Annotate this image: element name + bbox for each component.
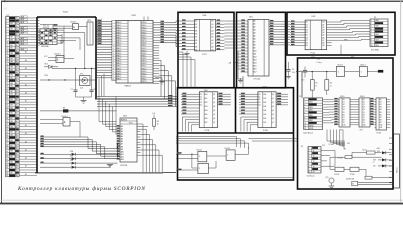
svg-text:21: 21	[6, 72, 8, 74]
svg-text:Q6: Q6	[272, 118, 274, 120]
gate DD16.3 label	[62, 116, 68, 118]
svg-text:7: 7	[308, 164, 309, 166]
svg-text:PA5.1: PA5.1	[117, 75, 122, 78]
label VCC	[44, 56, 48, 58]
resistor R5a	[330, 156, 382, 160]
svg-text:A16: A16	[253, 68, 256, 71]
gate DD15.2	[226, 147, 248, 160]
EPROM DD6	[117, 118, 141, 162]
ground bottom right	[329, 183, 334, 189]
svg-text:27: 27	[6, 88, 8, 90]
svg-text:K1: K1	[374, 17, 376, 19]
resistor pack RP1	[87, 20, 93, 45]
svg-text:9: 9	[371, 42, 372, 44]
connector X3 label	[301, 146, 303, 148]
svg-text:D9: D9	[306, 45, 308, 47]
ground under DD8	[155, 78, 165, 84]
svg-text:A8: A8	[253, 44, 255, 47]
bus wires to box D	[97, 95, 178, 107]
svg-text:PA5.1: PA5.1	[117, 54, 122, 57]
function box C outline	[287, 12, 395, 55]
svg-text:ZQ1: ZQ1	[80, 88, 83, 90]
svg-text:3Q644: 3Q644	[63, 12, 68, 14]
wires into grid IC rows	[37, 18, 40, 45]
svg-text:D02: D02	[205, 102, 208, 104]
svg-text:KB8: KB8	[10, 39, 13, 41]
wire K1 area down	[340, 45, 342, 54]
svg-text:8: 8	[308, 166, 309, 168]
wires inside box E left	[301, 72, 303, 98]
svg-text:PA3.3: PA3.3	[117, 70, 122, 73]
svg-text:KB4: KB4	[10, 83, 13, 85]
label VD1	[43, 25, 46, 27]
label VD3	[45, 75, 48, 77]
svg-text:Q1: Q1	[213, 98, 215, 100]
svg-text:KB8: KB8	[10, 121, 13, 123]
svg-text:VD5: VD5	[347, 143, 350, 145]
svg-text:1: 1	[6, 18, 7, 20]
svg-text:HB: HB	[344, 148, 346, 150]
gate DD15.2 label	[225, 148, 231, 150]
svg-text:Q4: Q4	[211, 34, 213, 36]
svg-text:20: 20	[6, 69, 8, 71]
svg-text:PA7.3: PA7.3	[117, 39, 122, 42]
svg-text:13: 13	[112, 53, 114, 55]
page bottom edge band	[0, 200, 403, 205]
svg-text:44: 44	[6, 134, 8, 136]
svg-text:R5: R5	[316, 83, 318, 85]
capacitor C4	[284, 62, 295, 79]
svg-text:38: 38	[6, 118, 8, 120]
svg-text:D0: D0	[258, 94, 260, 96]
svg-text:Тчк Mouse: Тчк Mouse	[307, 176, 315, 178]
IC DD14 label	[360, 96, 364, 98]
svg-text:18: 18	[112, 66, 114, 68]
svg-text:5: 5	[308, 158, 309, 160]
svg-text:MS8: MS8	[309, 120, 313, 122]
svg-text:D9: D9	[195, 50, 197, 52]
svg-text:A15: A15	[253, 65, 256, 68]
svg-text:KB0: KB0	[10, 45, 13, 47]
svg-text:A6: A6	[253, 38, 255, 41]
svg-text:PA3.3: PA3.3	[117, 49, 122, 52]
svg-text:PA0.0: PA0.0	[117, 42, 122, 45]
connector X2 caption	[303, 132, 313, 134]
diode VD5	[40, 156, 118, 161]
svg-text:3: 3	[6, 23, 7, 25]
svg-text:D7: D7	[195, 43, 197, 45]
matrix IC DD1 right pin stubs	[37, 30, 62, 43]
svg-text:48: 48	[6, 145, 8, 147]
svg-text:Порт Mouse: Порт Mouse	[303, 132, 313, 134]
svg-text:3: 3	[112, 27, 113, 29]
svg-text:KB1: KB1	[10, 48, 13, 50]
svg-text:39: 39	[6, 121, 8, 123]
svg-text:10: 10	[6, 42, 8, 44]
register DD4 label	[203, 15, 207, 17]
svg-text:B11: B11	[380, 127, 383, 129]
svg-text:D2: D2	[258, 99, 260, 101]
register DD9	[181, 92, 231, 128]
svg-text:41: 41	[6, 126, 8, 128]
svg-text:15: 15	[6, 56, 8, 58]
resistor R4	[352, 149, 382, 154]
title text	[17, 185, 145, 192]
svg-text:1: 1	[112, 22, 113, 24]
svg-text:45: 45	[6, 137, 8, 139]
svg-text:17: 17	[6, 61, 8, 63]
svg-text:D00: D00	[205, 94, 208, 96]
label P3 6.1 MHz	[317, 59, 322, 64]
svg-text:KT208: KT208	[334, 174, 339, 176]
svg-text:MS1: MS1	[309, 102, 313, 104]
svg-text:14: 14	[112, 55, 114, 57]
transistor VT1 label	[80, 73, 83, 75]
svg-text:KB7: KB7	[10, 118, 13, 120]
svg-text:12: 12	[6, 48, 8, 50]
wire bus box A to DD8	[96, 20, 112, 45]
svg-text:B10: B10	[380, 125, 383, 127]
svg-text:D0: D0	[343, 99, 345, 101]
sheet corner mark	[4, 7, 8, 11]
svg-text:4: 4	[371, 28, 372, 30]
svg-text:19: 19	[6, 67, 8, 69]
wire bus box A to DD8 lower pins	[96, 47, 112, 96]
EPROM DD5 label	[249, 17, 253, 19]
svg-text:DD7: DD7	[351, 57, 354, 59]
svg-text:KB2: KB2	[10, 105, 13, 107]
ground under oscillator	[76, 97, 92, 103]
connector K1 label	[374, 17, 376, 19]
svg-text:+2: +2	[373, 161, 375, 163]
svg-text:D3: D3	[343, 107, 345, 109]
gate DD16.2 label	[55, 54, 61, 56]
svg-text:PA4.0: PA4.0	[117, 31, 122, 34]
svg-text:6.1 мгц: 6.1 мгц	[317, 62, 322, 64]
wire vertical x64	[56, 26, 64, 57]
svg-text:T5: T5	[313, 161, 315, 163]
svg-text:VD4: VD4	[70, 151, 73, 153]
svg-text:KB7: KB7	[375, 39, 378, 41]
svg-text:Port KBD: Port KBD	[371, 48, 380, 51]
wire bundle right of DD6	[141, 124, 177, 172]
wire bundle down from mouse ICs	[327, 130, 345, 148]
svg-text:42: 42	[6, 129, 8, 131]
svg-text:D04: D04	[205, 110, 208, 112]
svg-text:B2: B2	[380, 104, 382, 106]
EPROM DD5	[241, 19, 281, 76]
svg-text:KB0: KB0	[375, 20, 378, 22]
svg-text:D8: D8	[343, 119, 345, 121]
svg-text:KB5: KB5	[10, 58, 13, 60]
svg-text:4: 4	[308, 156, 309, 158]
svg-text:Q2: Q2	[363, 104, 365, 106]
svg-text:16.0: 16.0	[292, 72, 295, 74]
MCU DD8 top stubs	[144, 17, 148, 21]
svg-text:56: 56	[6, 167, 8, 169]
label DD7	[351, 57, 354, 59]
label ZQ644 above box A	[63, 12, 68, 14]
svg-text:PA5.1: PA5.1	[117, 34, 122, 37]
svg-text:5: 5	[112, 32, 113, 34]
svg-text:D6: D6	[343, 114, 345, 116]
connector X2 mouse port	[304, 98, 323, 130]
svg-text:A12: A12	[253, 56, 256, 59]
register DD2 part label	[311, 52, 316, 54]
capacitor C8	[90, 69, 96, 98]
wire staircase DD2 to K1	[332, 21, 370, 41]
svg-text:P16: P16	[322, 145, 325, 147]
svg-text:1k: 1k	[316, 85, 318, 87]
svg-text:1: 1	[308, 148, 309, 150]
svg-text:A9: A9	[253, 47, 255, 50]
svg-text:A7: A7	[253, 41, 255, 44]
svg-text:6: 6	[308, 161, 309, 163]
svg-text:KB7: KB7	[10, 172, 13, 174]
resistor R2	[325, 72, 332, 95]
svg-text:DD10: DD10	[263, 86, 268, 88]
svg-text:D3: D3	[200, 102, 202, 104]
svg-text:B7: B7	[380, 117, 382, 119]
transistor VT3	[350, 167, 366, 176]
svg-text:Q0: Q0	[272, 94, 274, 96]
register DD4 part label	[202, 54, 207, 56]
svg-text:VD2: VD2	[45, 64, 48, 66]
svg-text:53: 53	[6, 159, 8, 161]
svg-text:10: 10	[371, 45, 373, 47]
svg-text:24: 24	[6, 80, 8, 82]
svg-text:11: 11	[6, 45, 8, 47]
svg-text:8: 8	[112, 40, 113, 42]
svg-text:Q0: Q0	[213, 94, 215, 96]
svg-text:4: 4	[112, 30, 113, 32]
svg-text:+12B: +12B	[376, 148, 380, 150]
svg-text:16: 16	[112, 61, 114, 63]
svg-text:7: 7	[112, 38, 113, 40]
diode VD8	[377, 151, 392, 154]
transistor VT2	[330, 167, 350, 176]
gate DD16.1 label	[71, 21, 77, 23]
label R1.2	[312, 56, 315, 58]
register DD10 label	[263, 86, 268, 88]
svg-text:PA0.0: PA0.0	[117, 62, 122, 65]
register DD10 part label	[263, 130, 268, 132]
svg-text:DD6: DD6	[123, 116, 127, 118]
svg-text:5: 5	[371, 31, 372, 33]
svg-text:X3: X3	[301, 146, 303, 148]
svg-text:Q2: Q2	[213, 102, 215, 104]
wire staircase DD8 lower right	[159, 61, 175, 107]
svg-text:37: 37	[6, 115, 8, 117]
svg-text:A5: A5	[253, 35, 255, 38]
svg-text:35: 35	[6, 110, 8, 112]
svg-text:D05: D05	[263, 114, 266, 116]
svg-text:PA1.1: PA1.1	[117, 65, 122, 68]
svg-text:R5 200: R5 200	[338, 157, 343, 159]
IC DD13 part label	[340, 129, 343, 131]
svg-text:KB8: KB8	[10, 94, 13, 96]
IC DD13	[334, 98, 356, 127]
svg-text:5: 5	[6, 29, 7, 31]
wire staircase into DD9 lower pins	[182, 126, 191, 131]
svg-text:27C256: 27C256	[254, 79, 261, 81]
svg-text:KB9: KB9	[10, 69, 13, 71]
svg-text:D06: D06	[263, 118, 266, 120]
svg-text:D01: D01	[263, 98, 266, 100]
svg-text:D5: D5	[195, 37, 197, 39]
svg-text:D1: D1	[343, 102, 345, 104]
svg-text:DD4: DD4	[203, 15, 207, 17]
box D bottom second line	[178, 177, 294, 179]
svg-text:7: 7	[371, 37, 372, 39]
svg-text:Q7: Q7	[272, 122, 274, 124]
resistor R9	[152, 113, 159, 130]
svg-text:D8: D8	[195, 46, 197, 48]
wires inside box E left	[301, 72, 303, 98]
svg-text:D1: D1	[195, 24, 197, 26]
svg-text:D4: D4	[200, 105, 202, 107]
matrix IC DD1 part label	[41, 45, 49, 48]
svg-text:KB7: KB7	[10, 91, 13, 93]
svg-text:D04: D04	[263, 110, 266, 112]
svg-text:VD8: VD8	[377, 151, 380, 153]
svg-text:B4: B4	[380, 109, 382, 111]
svg-text:22: 22	[6, 75, 8, 77]
svg-text:KB5: KB5	[375, 34, 378, 36]
wire bundle box A middle staircase	[40, 136, 117, 159]
gate DD16.2	[48, 56, 74, 63]
MCU DD8 label	[132, 15, 137, 17]
svg-text:KB5: KB5	[10, 167, 13, 169]
junction node diamonds	[116, 142, 118, 158]
IC DD14 part label	[360, 129, 363, 131]
svg-text:D1: D1	[258, 97, 260, 99]
label C5	[52, 25, 54, 27]
svg-text:KB1: KB1	[10, 156, 13, 158]
svg-text:31: 31	[6, 99, 8, 101]
register DD9 label	[204, 90, 208, 92]
svg-text:KB3: KB3	[10, 134, 13, 136]
svg-text:29: 29	[6, 94, 8, 96]
IC DD13 label	[340, 96, 344, 98]
svg-text:Q0: Q0	[363, 99, 365, 101]
svg-text:BMX03: BMX03	[121, 120, 127, 122]
svg-text:21: 21	[112, 73, 114, 75]
MCU DD8 part label	[125, 85, 131, 88]
svg-text:T3: T3	[313, 156, 315, 158]
svg-text:Q8: Q8	[363, 119, 365, 121]
svg-text:T9: T9	[313, 172, 315, 174]
svg-text:D9: D9	[343, 122, 345, 124]
diode VD4	[40, 151, 118, 156]
svg-text:ЛЛ2: ЛЛ2	[360, 129, 363, 131]
MCU DD8	[116, 21, 153, 84]
EPROM DD6 part label	[121, 165, 128, 167]
bottom bus wire	[35, 172, 176, 173]
svg-text:KB8: KB8	[10, 67, 13, 69]
svg-text:14: 14	[6, 53, 8, 55]
svg-text:KB3: KB3	[10, 162, 13, 164]
svg-text:A0: A0	[253, 20, 255, 23]
svg-text:D01: D01	[205, 98, 208, 100]
svg-text:Q2: Q2	[211, 27, 213, 29]
function box E outline	[298, 58, 394, 189]
svg-text:B8: B8	[380, 119, 382, 121]
connector X3 touch	[308, 147, 321, 174]
gate DD15.5	[359, 67, 378, 77]
svg-text:A4: A4	[253, 32, 255, 35]
wires DD4 bottom into box D	[178, 52, 195, 88]
svg-text:PA1.1: PA1.1	[117, 24, 122, 27]
svg-text:Q7: Q7	[213, 122, 215, 124]
svg-text:D3: D3	[258, 102, 260, 104]
svg-text:34: 34	[6, 107, 8, 109]
svg-text:PC0B: PC0B	[263, 130, 268, 132]
wire oscillator top rail	[52, 68, 96, 69]
svg-text:MS6: MS6	[309, 115, 313, 117]
svg-text:DD2: DD2	[312, 16, 316, 18]
svg-text:25: 25	[6, 83, 8, 85]
EPROM DD5 part label	[254, 79, 261, 81]
diode VD10	[373, 164, 392, 167]
svg-text:D4: D4	[195, 34, 197, 36]
wire DD1 to RP1 area	[62, 30, 85, 68]
svg-text:D6: D6	[195, 40, 197, 42]
svg-text:D2: D2	[343, 104, 345, 106]
svg-text:6: 6	[371, 34, 372, 36]
svg-text:6: 6	[112, 35, 113, 37]
crystal ZQ1 label	[80, 88, 83, 90]
ground under DD4	[184, 51, 189, 56]
net label BT608	[329, 144, 334, 146]
svg-text:PA4.0: PA4.0	[117, 72, 122, 75]
svg-text:Q5: Q5	[363, 112, 365, 114]
svg-text:A13: A13	[121, 158, 124, 161]
svg-text:PA2.2: PA2.2	[117, 67, 122, 70]
wire X3 rows to R area	[321, 151, 335, 167]
svg-text:A17: A17	[253, 71, 256, 74]
svg-text:Q7: Q7	[211, 43, 213, 45]
svg-text:KB2: KB2	[375, 26, 378, 28]
svg-text:DD14: DD14	[360, 96, 364, 98]
svg-text:23: 23	[6, 77, 8, 79]
svg-text:28: 28	[6, 91, 8, 93]
register DD10	[239, 92, 288, 128]
svg-text:B5: B5	[380, 112, 382, 114]
transistor VT5	[326, 177, 335, 183]
svg-text:40: 40	[6, 124, 8, 126]
svg-text:20: 20	[112, 71, 114, 73]
page right edge line	[400, 1, 402, 203]
svg-text:D4: D4	[343, 109, 345, 111]
svg-text:26: 26	[6, 86, 8, 88]
gate DD15.5 label	[360, 65, 366, 67]
svg-text:DD13: DD13	[340, 96, 344, 98]
svg-text:KB7: KB7	[10, 145, 13, 147]
svg-text:VD5: VD5	[70, 156, 73, 158]
svg-text:X1: X1	[299, 96, 301, 98]
capacitor C7	[71, 69, 78, 98]
svg-text:EP2108: EP2108	[121, 165, 128, 167]
register DD4	[181, 19, 224, 51]
svg-text:54: 54	[6, 162, 8, 164]
svg-text:22: 22	[112, 76, 114, 78]
svg-text:Q5: Q5	[213, 114, 215, 116]
svg-text:47: 47	[6, 143, 8, 145]
svg-text:KT208: KT208	[350, 174, 355, 176]
svg-text:D0: D0	[200, 94, 202, 96]
svg-text:KB3: KB3	[10, 53, 13, 55]
